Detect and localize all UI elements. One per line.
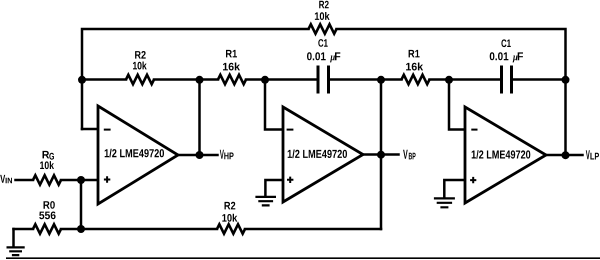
op-amp U1 [98,106,178,204]
node dot VHP top [196,76,204,84]
label text VBP sub [409,153,416,160]
wire ground1 drop [12,229,15,246]
op-amp U3 plus sign [470,177,476,183]
label text U1 label [105,149,164,158]
wire VHP output [178,154,218,157]
wire row2 segment F [513,78,566,81]
label text VHP sub [224,153,233,160]
resistor R2 top 10k [309,24,337,33]
label text F (second) [518,52,523,60]
node dot VBP top [377,76,385,84]
node dot right top [562,76,570,84]
wire row2 segment D [330,78,402,81]
label text VLP sub [590,153,599,160]
node dot VLP [562,151,570,159]
op-amp U2 minus sign [287,129,294,131]
label text 0.01 (first) [307,52,326,60]
label text R1 (second) [409,50,420,58]
op-amp U1 plus sign [104,176,110,182]
node dot VHP [196,151,204,159]
op-amp U2 plus sign [287,177,293,183]
label text 16k (second) [406,63,423,71]
wire R0 to R2 [61,228,217,231]
wire op2 plus to ground [265,180,283,196]
label text VIN V [0,175,5,183]
op-amp U1 minus sign [104,129,111,131]
label text C1 (second) [501,39,510,47]
label text R1 (first) [226,50,237,58]
label text U3 label [472,150,531,159]
label text mu (second) [513,56,518,63]
label text 10k (row2) [133,62,147,70]
wire VLP output [546,154,583,157]
label text VIN sub [6,178,12,184]
label text 0.01 (second) [490,52,509,60]
resistor R1 first 16k [218,75,246,84]
label text F (first) [335,52,340,60]
wire bottom R2 to VBP drop [245,228,381,231]
resistor R2 bottom 10k [217,224,245,233]
ground G3 [434,198,455,207]
ground G1 [7,247,25,255]
node dot row2 left [78,76,86,84]
wire op3 inverting drop [449,80,465,130]
wire row2 segment A [82,78,126,81]
op-amp U3 minus sign [471,129,477,131]
node dot R0 [77,225,85,233]
wire VIN lead [16,179,34,182]
label text RG 10k [40,161,54,169]
wire op1 inverting input [82,128,98,131]
label text R2 (bottom) [225,202,236,210]
label text mu (first) [330,56,335,63]
wire VHP drop [198,80,201,156]
label text VHP V [220,150,224,159]
capacitor C1 second plates [500,66,503,94]
wire VBP drop [380,80,383,230]
wire row2 segment E [430,78,501,81]
resistor R2 row2 10k [126,75,154,84]
resistor R0 556 [33,224,61,233]
wire RG to op1 plus [61,179,98,182]
label text R2 (row2) [135,51,146,59]
ground G2 [255,197,276,206]
wire row2 segment C [246,78,317,81]
label text RG G sub [49,153,54,160]
capacitor C1 first plates [317,66,320,94]
label text R2 (top) [319,1,329,9]
label text 10k (top) [315,12,330,20]
label text R0 [44,201,55,209]
label text VBP V [403,150,408,159]
label text VLP V [586,150,590,159]
label text RG R [43,151,50,159]
wire top loop left: from op1 inverting input up and across [82,29,309,129]
wire bottom ground lead [14,228,34,231]
wire top loop right: across and down to VLP node [337,29,566,155]
label text C1 (first) [318,39,327,47]
label text 16k (first) [223,63,240,71]
bottom rule [6,257,600,259]
wire op3 plus to ground [444,180,465,197]
node dot input [77,176,85,184]
resistor RG 10k [33,175,61,184]
wire input node drop [80,180,83,229]
node dot op2 inverting [261,76,269,84]
node dot VBP [377,151,385,159]
resistor R1 second 16k [402,75,430,84]
op-amp U3 [465,107,546,203]
label text U2 label [288,150,347,159]
node dot op3 inverting [445,76,453,84]
wire op2 inverting drop [265,80,283,130]
op-amp U2 [283,107,363,202]
wire row2 segment B [154,78,218,81]
label text 556 [39,212,55,220]
label text 10k (bottom) [222,214,237,222]
wire VBP output [363,153,399,156]
